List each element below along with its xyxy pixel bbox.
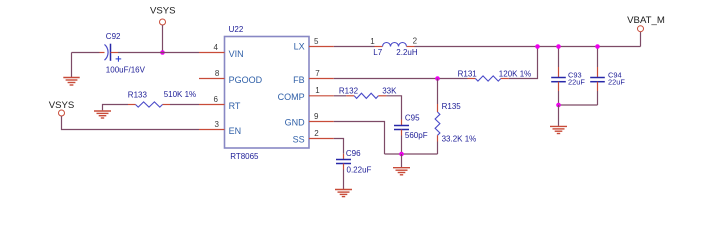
svg-text:4: 4 — [214, 43, 219, 52]
net label VSYS (left) — [49, 100, 75, 111]
wire VSYS port riser — [162, 25, 164, 52]
svg-text:COMP: COMP — [278, 92, 305, 102]
svg-text:2.2uH: 2.2uH — [396, 48, 418, 57]
R135 refdes label — [442, 102, 462, 111]
C95 refdes label — [405, 114, 420, 123]
wire C94 to bottom node — [597, 91, 599, 105]
capacitor C95 plates — [394, 126, 409, 130]
svg-text:8: 8 — [215, 69, 220, 78]
wire ground stub C93 — [558, 105, 560, 126]
svg-text:22uF: 22uF — [568, 78, 585, 87]
R131 value label 120K 1% — [499, 69, 531, 78]
inductor L7 pin 2 — [407, 46, 415, 48]
wire FB to R131/R135 node — [334, 78, 468, 80]
net label VSYS (top) — [150, 6, 176, 17]
wire R132 to C95 — [386, 96, 401, 120]
svg-text:510K 1%: 510K 1% — [164, 90, 196, 99]
capacitor C93 pin top — [558, 67, 560, 78]
resistor R133 zigzag — [136, 102, 163, 107]
svg-text:RT: RT — [229, 101, 241, 111]
C92 refdes label — [106, 32, 121, 41]
svg-text:VSYS: VSYS — [49, 100, 75, 111]
pin 7 FB stub — [309, 78, 334, 80]
C92 value label 100uF/16V — [106, 65, 146, 74]
capacitor C93 pin bottom — [558, 82, 560, 91]
ground GND4 (bottom rail) — [393, 168, 410, 175]
C93 value label 22uF — [568, 78, 585, 87]
svg-text:2: 2 — [413, 36, 418, 45]
capacitor C94 pin bottom — [597, 82, 599, 91]
pin 9 GND stub — [309, 121, 334, 123]
svg-text:R133: R133 — [128, 91, 148, 100]
svg-text:120K 1%: 120K 1% — [499, 69, 531, 78]
wire R133 to ground corner — [103, 105, 129, 111]
wire FB node down to R135 — [437, 79, 439, 105]
capacitor C92 curved plate — [105, 44, 109, 60]
svg-text:R131: R131 — [458, 69, 478, 78]
capacitor C96 plates — [336, 160, 351, 164]
power port VSYS left circle — [59, 110, 65, 116]
svg-text:C95: C95 — [405, 114, 420, 123]
wire COMP to R132 — [334, 95, 346, 97]
svg-text:33K: 33K — [382, 86, 397, 95]
pin 8 PGOOD stub — [199, 78, 225, 80]
capacitor C92 plus sign — [116, 56, 122, 62]
capacitor C95 pin bottom — [401, 130, 403, 136]
junction dot rail C93 — [556, 44, 561, 49]
svg-text:0.22uF: 0.22uF — [347, 166, 372, 175]
svg-text:2: 2 — [314, 129, 319, 138]
wire C93 to bottom node — [558, 91, 560, 105]
svg-text:5: 5 — [314, 37, 319, 46]
wire bottom rail — [385, 153, 438, 155]
svg-text:9: 9 — [314, 112, 319, 121]
pin name COMP — [278, 92, 305, 102]
capacitor C92 straight plate — [110, 44, 112, 61]
pin 5 LX stub — [309, 46, 334, 48]
ground GND5 (C93/C94) — [550, 126, 567, 133]
svg-text:LX: LX — [294, 41, 305, 51]
pin 6 RT stub — [199, 104, 225, 106]
resistor R132 pin right — [378, 95, 386, 97]
pin number 4 — [214, 43, 219, 52]
wire C92 to pin VIN — [118, 52, 199, 54]
wire ground stub bottom rail — [401, 154, 403, 167]
pin number 5 — [314, 37, 319, 46]
wire R131 to rail riser — [509, 47, 538, 79]
svg-text:33.2K 1%: 33.2K 1% — [442, 135, 477, 144]
pin 3 EN stub — [199, 129, 225, 131]
junction dot rail C94 — [595, 44, 600, 49]
pin number 3 — [215, 120, 220, 129]
C96 value label 0.22uF — [347, 166, 372, 175]
capacitor C94 pin top — [597, 67, 599, 78]
svg-text:VIN: VIN — [229, 49, 244, 59]
resistor R131 pin right — [501, 78, 509, 80]
wire C93-C94 bottom rail — [559, 104, 598, 106]
svg-text:C96: C96 — [346, 149, 361, 158]
wire GND pin to corner — [334, 122, 385, 155]
pin name SS — [293, 134, 305, 144]
svg-text:C92: C92 — [106, 32, 121, 41]
wire C96 to ground — [343, 170, 345, 190]
wire ground riser left — [71, 53, 73, 78]
svg-text:FB: FB — [293, 75, 305, 85]
inductor L7 pin 1 — [375, 46, 383, 48]
C94 value label 22uF — [608, 78, 625, 87]
resistor R133 pin left — [128, 104, 136, 106]
resistor R135 zigzag — [435, 112, 440, 135]
pin name FB — [293, 75, 305, 85]
svg-text:100uF/16V: 100uF/16V — [106, 65, 146, 74]
L7 pin number 2 — [413, 36, 418, 45]
svg-text:SS: SS — [293, 134, 305, 144]
wire ground to C92 left — [72, 52, 100, 54]
pin 4 VIN stub — [199, 52, 225, 54]
pin number 9 — [314, 112, 319, 121]
power port VBAT_M circle — [638, 26, 644, 32]
svg-text:PGOOD: PGOOD — [229, 75, 263, 85]
svg-text:R132: R132 — [339, 86, 359, 95]
wire C95 to bottom rail — [401, 136, 403, 155]
wire VBAT_M riser — [640, 32, 642, 47]
capacitor C96 pin top — [343, 154, 345, 160]
wire C94 riser from rail — [597, 47, 599, 68]
U22 refdes label — [229, 25, 244, 34]
inductor L7 coil — [383, 43, 407, 47]
junction dot C93 bottom — [556, 103, 561, 108]
svg-text:22uF: 22uF — [608, 78, 625, 87]
pin number 7 — [315, 69, 320, 78]
pin number 8 — [215, 69, 220, 78]
resistor R132 pin left — [346, 95, 354, 97]
svg-text:1: 1 — [315, 86, 320, 95]
capacitor C92 pin left — [100, 52, 105, 54]
C96 refdes label — [346, 149, 361, 158]
svg-text:1: 1 — [370, 37, 375, 46]
ground GND3 (C96) — [335, 190, 352, 197]
junction dot rail R131 — [535, 44, 540, 49]
wire SS to C96 — [334, 139, 344, 154]
resistor R135 pin top — [437, 104, 439, 112]
R133 value label 510K 1% — [164, 90, 196, 99]
resistor R133 pin right — [163, 104, 171, 106]
pin name GND — [285, 118, 306, 128]
pin name EN — [229, 126, 242, 136]
svg-text:7: 7 — [315, 69, 320, 78]
L7 refdes label — [373, 48, 382, 57]
capacitor C96 pin bottom — [343, 164, 345, 170]
svg-text:R135: R135 — [442, 102, 462, 111]
power port VSYS top circle — [160, 19, 166, 25]
R133 refdes label — [128, 91, 148, 100]
L7 pin number 1 — [370, 37, 375, 46]
wire RT to R133 — [170, 104, 199, 106]
svg-text:EN: EN — [229, 126, 242, 136]
svg-text:VSYS: VSYS — [150, 6, 176, 17]
pin number 6 — [214, 95, 219, 104]
junction dot VIN node — [160, 50, 165, 55]
ground GND1 (left of C92) — [63, 78, 79, 86]
capacitor C95 pin top — [401, 120, 403, 126]
svg-text:6: 6 — [214, 95, 219, 104]
svg-text:RT8065: RT8065 — [230, 152, 259, 161]
wire L7 to VBAT_M rail — [415, 46, 641, 48]
C95 value label 560pF — [405, 131, 428, 140]
C93 refdes label — [568, 71, 582, 80]
C94 refdes label — [608, 71, 622, 80]
capacitor C92 pin right — [111, 52, 119, 54]
wire LX to L7 — [334, 46, 375, 48]
pin name PGOOD — [229, 75, 263, 85]
svg-text:560pF: 560pF — [405, 131, 428, 140]
net label VBAT_M — [627, 15, 665, 26]
wire C93 riser from rail — [558, 47, 560, 68]
R131 refdes label — [458, 69, 478, 78]
svg-text:L7: L7 — [373, 48, 382, 57]
ground GND2 (R133) — [94, 111, 111, 118]
svg-text:GND: GND — [285, 118, 306, 128]
pin 2 SS stub — [309, 138, 334, 140]
capacitor C94 plates — [590, 78, 605, 82]
pin name RT — [229, 101, 241, 111]
junction dot bottom rail — [399, 152, 404, 157]
capacitor C93 plates — [551, 78, 566, 82]
resistor R135 pin bottom — [437, 135, 439, 141]
resistor R131 zigzag — [475, 76, 500, 81]
wire VSYS left to EN — [62, 116, 200, 129]
pin number 2 — [314, 129, 319, 138]
pin 1 COMP stub — [309, 95, 334, 97]
R132 refdes label — [339, 86, 359, 95]
resistor R131 pin left — [468, 78, 476, 80]
svg-text:3: 3 — [215, 120, 220, 129]
pin number 1 — [315, 86, 320, 95]
R132 value label 33K — [382, 86, 397, 95]
pin name LX — [294, 41, 305, 51]
L7 value label 2.2uH — [396, 48, 418, 57]
svg-text:VBAT_M: VBAT_M — [627, 15, 665, 26]
R135 value label 33.2K 1% — [442, 135, 477, 144]
svg-text:U22: U22 — [229, 25, 244, 34]
wire R135 to bottom rail — [437, 142, 439, 155]
pin name VIN — [229, 49, 244, 59]
IC U22 body rectangle — [225, 37, 310, 149]
RT8065 value label — [230, 152, 259, 161]
junction dot FB node — [435, 76, 440, 81]
resistor R132 zigzag — [354, 93, 378, 98]
